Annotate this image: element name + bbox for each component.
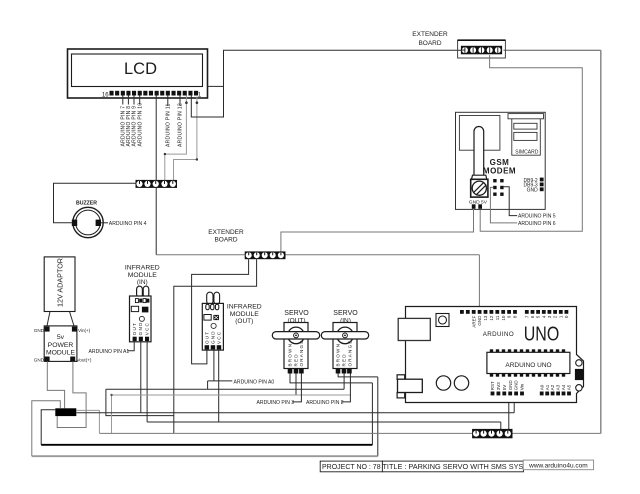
svg-text:EXTENDER: EXTENDER <box>412 31 448 38</box>
buzzer right terminal <box>96 220 101 226</box>
wire stub LCD pin to ARDUINO PIN 10 <box>139 96 141 105</box>
servo IN horn ellipse <box>337 327 354 344</box>
GSM sim tray body <box>512 119 541 155</box>
svg-text:ARDUINO PIN 4: ARDUINO PIN 4 <box>109 221 147 227</box>
Arduino UNO board outline <box>406 307 584 403</box>
black bus H5 <box>41 444 372 446</box>
svg-text:10: 10 <box>501 315 506 321</box>
svg-text:GND: GND <box>477 315 482 326</box>
IR IN module body <box>130 296 152 342</box>
svg-text:ARDUINO PIN 5: ARDUINO PIN 5 <box>518 214 556 220</box>
IR OUT screw circle <box>211 323 216 328</box>
wire left bracket to black bus H5 <box>41 410 55 445</box>
wire IR IN VCC pin down to 5V bus <box>146 341 148 422</box>
capacitor circle 2 <box>454 376 468 390</box>
svg-text:MODULE: MODULE <box>128 272 158 279</box>
connector 1 below LCD <box>136 180 178 188</box>
bottom connector <box>472 429 512 438</box>
svg-text:OUT: OUT <box>204 331 209 344</box>
GSM extender connector <box>461 46 502 55</box>
svg-text:SERVO: SERVO <box>284 310 309 317</box>
svg-text:A5: A5 <box>567 384 572 390</box>
svg-text:GND: GND <box>210 330 215 344</box>
svg-text:BOARD: BOARD <box>214 237 237 244</box>
svg-text:ARDUINO: ARDUINO <box>483 331 514 338</box>
GSM sim slot 1 <box>514 123 537 129</box>
wire stub LCD pin to ARDUINO PIN 9 <box>133 96 135 105</box>
wire GSM extender pin4 to 5V of GSM modem (via right side) <box>480 55 582 231</box>
svg-text:RED: RED <box>294 353 299 366</box>
servo IN hub ring <box>343 333 348 338</box>
wire servo OUT red down <box>295 374 297 395</box>
svg-text:ARDUINO PIN 3: ARDUINO PIN 3 <box>257 400 295 406</box>
row bus right section <box>513 432 601 434</box>
servo IN pins <box>336 369 341 374</box>
svg-text:GND: GND <box>34 328 45 333</box>
wire left bracket to gray bus H6 <box>32 401 61 456</box>
ATmega chip bumps top <box>490 349 565 352</box>
power module pin top-right <box>72 327 77 332</box>
adaptor lead left <box>47 312 50 327</box>
ATmega chip bumps bottom <box>490 374 565 377</box>
gray bus H6 <box>32 455 378 457</box>
UNO analog header labels <box>539 384 571 390</box>
UNO power header labels <box>490 380 524 391</box>
svg-text:EXTENDER: EXTENDER <box>208 229 244 236</box>
wire left drop of gray bus to row bus <box>111 395 113 433</box>
DB9-2 pin <box>540 178 544 182</box>
junction dot W1 corner <box>164 153 166 155</box>
wire servo IN orange to label PIN 2 <box>341 374 350 402</box>
bus red IN (5V) <box>106 388 344 390</box>
svg-text:LCD: LCD <box>124 60 157 78</box>
wire right-side vertical drop to bottom connector row <box>600 50 602 433</box>
svg-text:www.arduino4u.com: www.arduino4u.com <box>528 463 588 470</box>
UNO digital header AREF-8 <box>460 310 517 314</box>
svg-text:AREF: AREF <box>471 315 476 327</box>
svg-text:MODEM: MODEM <box>483 167 516 176</box>
svg-text:TITLE : PARKING SERVO WITH SMS: TITLE : PARKING SERVO WITH SMS SYS <box>382 462 523 471</box>
wire 5V bus drop to bottom connector pin4 <box>500 422 502 430</box>
wire IR IN OUT pin to label A1 <box>127 341 134 351</box>
junction dot W2 corner <box>196 158 198 160</box>
svg-text:5V: 5V <box>502 385 507 391</box>
wire buzzer right terminal tick <box>101 222 108 224</box>
svg-text:BROWN: BROWN <box>336 343 341 367</box>
ICSP hole bottom <box>576 385 582 391</box>
wire IR OUT VCC pin down to 5V bus <box>218 349 220 422</box>
svg-text:5v: 5v <box>57 334 65 341</box>
wire buzzer to connector 1 pin1 <box>54 183 137 223</box>
svg-text:A2: A2 <box>550 384 555 390</box>
svg-text:MODULE: MODULE <box>230 311 260 318</box>
GSM GND terminal <box>472 204 476 209</box>
buzzer outer circle <box>73 207 103 237</box>
svg-text:ARDUINO PIN 11: ARDUINO PIN 11 <box>165 103 171 147</box>
svg-text:GND: GND <box>508 380 513 391</box>
wire gray bus drop vertical <box>377 377 379 456</box>
svg-text:12: 12 <box>489 315 494 321</box>
GSM extender board outline <box>458 40 506 58</box>
buzzer inner circle <box>76 210 101 235</box>
wire IR OUT GND pin to label A0 <box>208 349 233 389</box>
svg-text:Vin(+): Vin(+) <box>78 328 91 333</box>
servo OUT hub dot <box>295 335 297 337</box>
extender connector (middle) <box>245 251 286 259</box>
svg-text:INFRARED: INFRARED <box>227 304 262 311</box>
svg-text:MODULE: MODULE <box>46 349 76 356</box>
svg-text:ARDUINO PIN A1: ARDUINO PIN A1 <box>89 349 130 355</box>
adaptor lead right <box>70 312 75 327</box>
wire down into UNO GND pin <box>478 255 480 311</box>
svg-text:A4: A4 <box>561 384 566 390</box>
wire ground drop to black bus <box>371 383 373 445</box>
svg-text:A3: A3 <box>556 384 561 390</box>
UNO digital header 7-0 <box>525 310 568 314</box>
svg-text:ARDUINO PIN 2: ARDUINO PIN 2 <box>306 400 344 406</box>
wire LCD pin16 to connector pin5 (gray) <box>174 97 197 182</box>
5V power module box <box>44 326 77 362</box>
junction dot on pin16 wire <box>196 101 199 104</box>
servo OUT hub ring <box>294 333 299 338</box>
power module pin bottom-right <box>70 357 75 362</box>
bus 5V to bottom connector <box>147 421 501 423</box>
IR IN top pin row <box>135 299 138 303</box>
wire servo OUT orange to label PIN 3 <box>292 374 301 402</box>
GND DB9 pin <box>540 187 544 191</box>
servo IN hub dot <box>344 335 346 337</box>
12V adaptor box <box>44 257 75 312</box>
UNO analog header A0-A5 <box>540 392 571 396</box>
svg-text:RED: RED <box>342 353 347 366</box>
wire servo OUT brown to ground bus and drop <box>290 374 372 383</box>
ICSP hole top <box>576 360 582 366</box>
IR OUT component black chip <box>213 315 219 320</box>
svg-text:16: 16 <box>102 93 109 99</box>
GSM 3x2 pin header <box>493 179 503 196</box>
wire GSM header to ARDUINO PIN 5 <box>504 187 518 216</box>
svg-text:ARDUINO PIN 10: ARDUINO PIN 10 <box>137 103 143 147</box>
power module pin bottom-left <box>45 357 50 362</box>
wire stub LCD right edge to riser <box>208 85 224 87</box>
svg-text:5V: 5V <box>481 199 488 205</box>
svg-text:PROJECT NO : 78: PROJECT NO : 78 <box>322 464 381 471</box>
svg-text:A1: A1 <box>545 384 550 390</box>
UNO digital header labels AREF GND 13-8 <box>471 315 517 328</box>
IR IN component white rect <box>131 306 138 311</box>
GSM antenna SMA connector <box>471 175 488 197</box>
svg-text:A0: A0 <box>539 384 544 390</box>
buzzer left terminal <box>72 220 77 226</box>
junction dot on pin14 wire <box>185 101 188 104</box>
wire UNO GND pin to bottom connector pin5 <box>508 398 510 430</box>
junction dot gray bus left corner <box>110 394 112 396</box>
GSM antenna stick <box>474 127 484 182</box>
svg-text:SERVO: SERVO <box>333 310 358 317</box>
USB connector <box>398 318 430 340</box>
GSM modem box <box>456 112 546 209</box>
GSM sim slot 2 <box>514 132 537 140</box>
wire IR IN GND pin down to bus <box>140 341 142 413</box>
wire servo IN brown to gray bus drop <box>338 374 378 377</box>
servo OUT body <box>284 323 308 369</box>
power module pin top-left <box>45 327 50 332</box>
capacitor circle 1 <box>436 376 450 390</box>
svg-text:Vout(+): Vout(+) <box>77 358 92 363</box>
svg-text:BOARD: BOARD <box>418 40 441 47</box>
wire LCD pin9 long vertical to extender row <box>155 96 157 255</box>
servo IN body <box>333 323 357 369</box>
svg-text:GND: GND <box>527 188 539 194</box>
svg-text:VCC: VCC <box>216 331 221 344</box>
IR OUT top pin row <box>206 304 209 309</box>
wire stub LCD pin to ARDUINO PIN 7 <box>122 96 124 105</box>
IR OUT module body <box>202 303 223 350</box>
junction block <box>55 408 76 416</box>
svg-text:ORANGE: ORANGE <box>347 339 352 366</box>
wire block to row bus (gray) <box>76 410 99 433</box>
DB9-3 pin <box>540 183 544 187</box>
wire LCD pin15 around right side to GSM extender <box>191 50 461 117</box>
title block: title box <box>382 461 523 472</box>
UNO power header <box>491 392 524 396</box>
svg-text:13: 13 <box>483 315 488 321</box>
IR OUT component white rect <box>204 315 211 321</box>
GSM antenna mount plate <box>459 116 500 151</box>
svg-text:BUZZER: BUZZER <box>76 201 97 207</box>
wire extender pin2 down-left then long drop to row bus <box>174 259 257 433</box>
svg-text:(OUT): (OUT) <box>235 318 253 325</box>
svg-text:ARDUINO PIN 6: ARDUINO PIN 6 <box>518 221 556 227</box>
IR OUT pins <box>205 345 210 349</box>
wire stub LCD pin to ARDUINO PIN 8 <box>127 96 129 105</box>
svg-text:RST: RST <box>490 381 495 390</box>
servo OUT pins <box>288 369 293 374</box>
svg-text:(IN): (IN) <box>137 279 148 286</box>
svg-text:BROWN: BROWN <box>288 343 293 367</box>
wire GSM GND down-left to extender pin5 <box>281 209 474 252</box>
wire servo IN red down <box>343 374 345 390</box>
IR IN module LED pair <box>137 286 143 297</box>
svg-text:POWER: POWER <box>48 342 74 349</box>
wire stub LCD pin to ARDUINO PIN 12 <box>179 96 181 107</box>
wire extender row horizontal to UNO <box>156 254 479 256</box>
title block: project no box <box>320 461 382 472</box>
LCD screen inner rect <box>72 54 203 87</box>
IR IN pins <box>133 337 137 341</box>
wire extender pin1 down to IR OUT module <box>192 259 249 364</box>
UNO digital header labels 7-0 <box>524 315 569 318</box>
ATmega chip body <box>487 352 570 373</box>
wire LCD pin14 to connector pin4 (gray) <box>165 96 187 182</box>
wire GSM header to ARDUINO PIN 6 <box>490 187 517 223</box>
bus red OUT / orange IN (gray) <box>112 394 351 396</box>
LCD module outer body <box>68 49 208 98</box>
wire power module Vout to junction block (U route) <box>57 361 86 427</box>
wire power module GND to junction block <box>47 361 64 408</box>
svg-text:GND: GND <box>138 321 143 335</box>
wire left drop of red bus to mid bus <box>106 389 174 415</box>
row bus left section <box>99 432 472 434</box>
LCD 16-pin header <box>110 91 199 96</box>
IR IN screw circle <box>139 316 144 321</box>
svg-text:GND: GND <box>34 358 45 363</box>
IR OUT module LED pair <box>207 292 213 304</box>
IR IN component black chip <box>142 307 149 313</box>
svg-text:ORANGE: ORANGE <box>299 339 304 366</box>
svg-text:12V ADAPTOR: 12V ADAPTOR <box>55 258 64 307</box>
svg-text:ARDUINO PIN A0: ARDUINO PIN A0 <box>234 379 275 385</box>
svg-text:ARDUINO UNO: ARDUINO UNO <box>505 362 551 369</box>
GSM sim tray top bar <box>508 114 544 119</box>
reset button <box>436 314 449 327</box>
svg-text:11: 11 <box>495 315 500 320</box>
svg-text:OUT: OUT <box>132 322 137 335</box>
svg-text:SIMCARD: SIMCARD <box>515 150 538 156</box>
svg-text:ARDUINO PIN 12: ARDUINO PIN 12 <box>178 103 184 147</box>
svg-text:Vin: Vin <box>520 383 525 390</box>
wire GSM extender right to right-side drop <box>504 49 601 51</box>
title block: website box <box>523 460 593 470</box>
svg-text:UNO: UNO <box>524 322 560 345</box>
power jack <box>397 375 405 380</box>
svg-text:INFRARED: INFRARED <box>125 265 160 272</box>
svg-text:VCC: VCC <box>144 322 149 335</box>
svg-text:3V3: 3V3 <box>496 382 501 391</box>
bus block to UNO Vin <box>76 412 514 414</box>
GSM 5V terminal <box>478 204 482 209</box>
servo OUT horn ellipse <box>288 327 305 344</box>
ICSP header block <box>575 369 584 380</box>
wire stub LCD pin to ARDUINO PIN 11 <box>167 96 169 107</box>
wire UNO Vin riser <box>513 398 515 413</box>
svg-text:GND: GND <box>514 380 519 391</box>
